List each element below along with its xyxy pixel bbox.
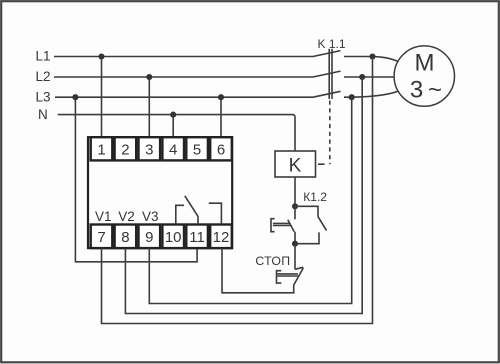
auxiliary contact K1.2 branch — [295, 206, 327, 243]
svg-text:9: 9 — [145, 229, 153, 246]
junction L3/left drop — [72, 94, 78, 100]
contact K1.1 blade phase L2 — [313, 71, 341, 77]
wire pin12 to stop button — [222, 248, 295, 293]
svg-text:L2: L2 — [36, 69, 51, 84]
node A junction — [292, 203, 298, 209]
junction L2/V2 sense — [359, 74, 365, 80]
svg-text:L1: L1 — [36, 49, 51, 64]
pin 5 — [186, 137, 208, 160]
contactor coil K — [275, 151, 316, 177]
wire L2 to pin 3 — [148, 77, 150, 137]
stop button SB2 actuator — [277, 271, 298, 283]
pin 11 — [186, 225, 208, 249]
wire L2 contact to motor — [344, 76, 395, 78]
wire N to pin 4 — [172, 115, 174, 138]
junction N/pin4 — [170, 112, 176, 118]
contactor linkage dashed to coil — [318, 101, 330, 165]
pin 2 — [115, 137, 137, 160]
junction L2/pin3 — [146, 74, 152, 80]
svg-text:K: K — [289, 156, 302, 177]
internal relay contact blade to pin 11 — [185, 196, 198, 225]
internal relay contact: fixed hook from pin 10 — [176, 205, 184, 224]
contact K1.1 linkage bars — [329, 49, 332, 99]
wire L1 to pin 1 — [101, 57, 103, 138]
pin 12 — [210, 225, 232, 249]
junction L1/V1 sense — [369, 53, 375, 59]
internal relay contact: fixed hook from pin 12 — [209, 203, 222, 224]
svg-text:M: M — [415, 50, 435, 77]
wire V1 sense pin7 to L1 — [102, 57, 373, 324]
svg-text:6: 6 — [217, 141, 225, 158]
stop button SB2 contact — [294, 267, 304, 293]
wire L1 bus — [54, 56, 313, 58]
svg-text:V1: V1 — [95, 209, 112, 224]
wire V2 sense pin8 to L2 — [125, 77, 362, 314]
pin 4 — [162, 137, 184, 160]
wire L1 contact to motor — [344, 57, 399, 62]
contact K1.1 blade phase L1 — [313, 51, 341, 57]
contact K1.1 blade phase L3 — [313, 91, 341, 97]
pin 3 — [139, 137, 161, 160]
svg-text:4: 4 — [169, 141, 177, 158]
motor M1 circle — [394, 46, 454, 106]
svg-text:11: 11 — [189, 229, 205, 246]
pin 8 — [115, 225, 137, 249]
svg-text:2: 2 — [121, 141, 129, 158]
pin 9 — [139, 225, 161, 249]
pin 7 — [91, 225, 113, 249]
svg-text:7: 7 — [97, 229, 105, 246]
wire V3 sense pin9 to L3 — [149, 97, 351, 303]
wire L3 to pin 6 — [220, 97, 222, 137]
wire L3 contact to motor — [344, 91, 399, 97]
wire L3 left drop to pin 11 — [75, 97, 197, 262]
svg-text:8: 8 — [121, 229, 129, 246]
wire N bus to coil drop — [58, 115, 295, 151]
svg-text:N: N — [38, 107, 48, 122]
svg-text:3 ~: 3 ~ — [410, 76, 442, 103]
svg-text:5: 5 — [193, 141, 201, 158]
svg-text:3: 3 — [145, 141, 153, 158]
svg-text:10: 10 — [165, 229, 182, 246]
svg-text:V3: V3 — [142, 209, 159, 224]
wire L2 bus — [54, 76, 313, 78]
pin 10 — [162, 225, 184, 249]
junction L1/pin1 — [98, 53, 104, 59]
start button SB1 contact — [288, 206, 295, 243]
pin 1 — [91, 137, 113, 160]
svg-text:12: 12 — [213, 229, 230, 246]
wire L3 bus — [55, 96, 313, 98]
relay U1 body — [88, 137, 232, 248]
svg-text:V2: V2 — [118, 209, 135, 224]
wire coil K to node A — [294, 177, 296, 206]
node B junction — [292, 241, 298, 247]
svg-text:СТОП: СТОП — [255, 254, 290, 268]
start button SB1 actuator — [271, 219, 291, 232]
pin 6 — [210, 137, 232, 160]
junction L3/pin6 — [218, 94, 224, 100]
svg-text:К1.2: К1.2 — [303, 190, 327, 204]
svg-text:L3: L3 — [36, 89, 51, 104]
junction L3/V3 sense — [349, 94, 355, 100]
wire node B to stop — [294, 244, 296, 270]
svg-text:1: 1 — [97, 141, 105, 158]
